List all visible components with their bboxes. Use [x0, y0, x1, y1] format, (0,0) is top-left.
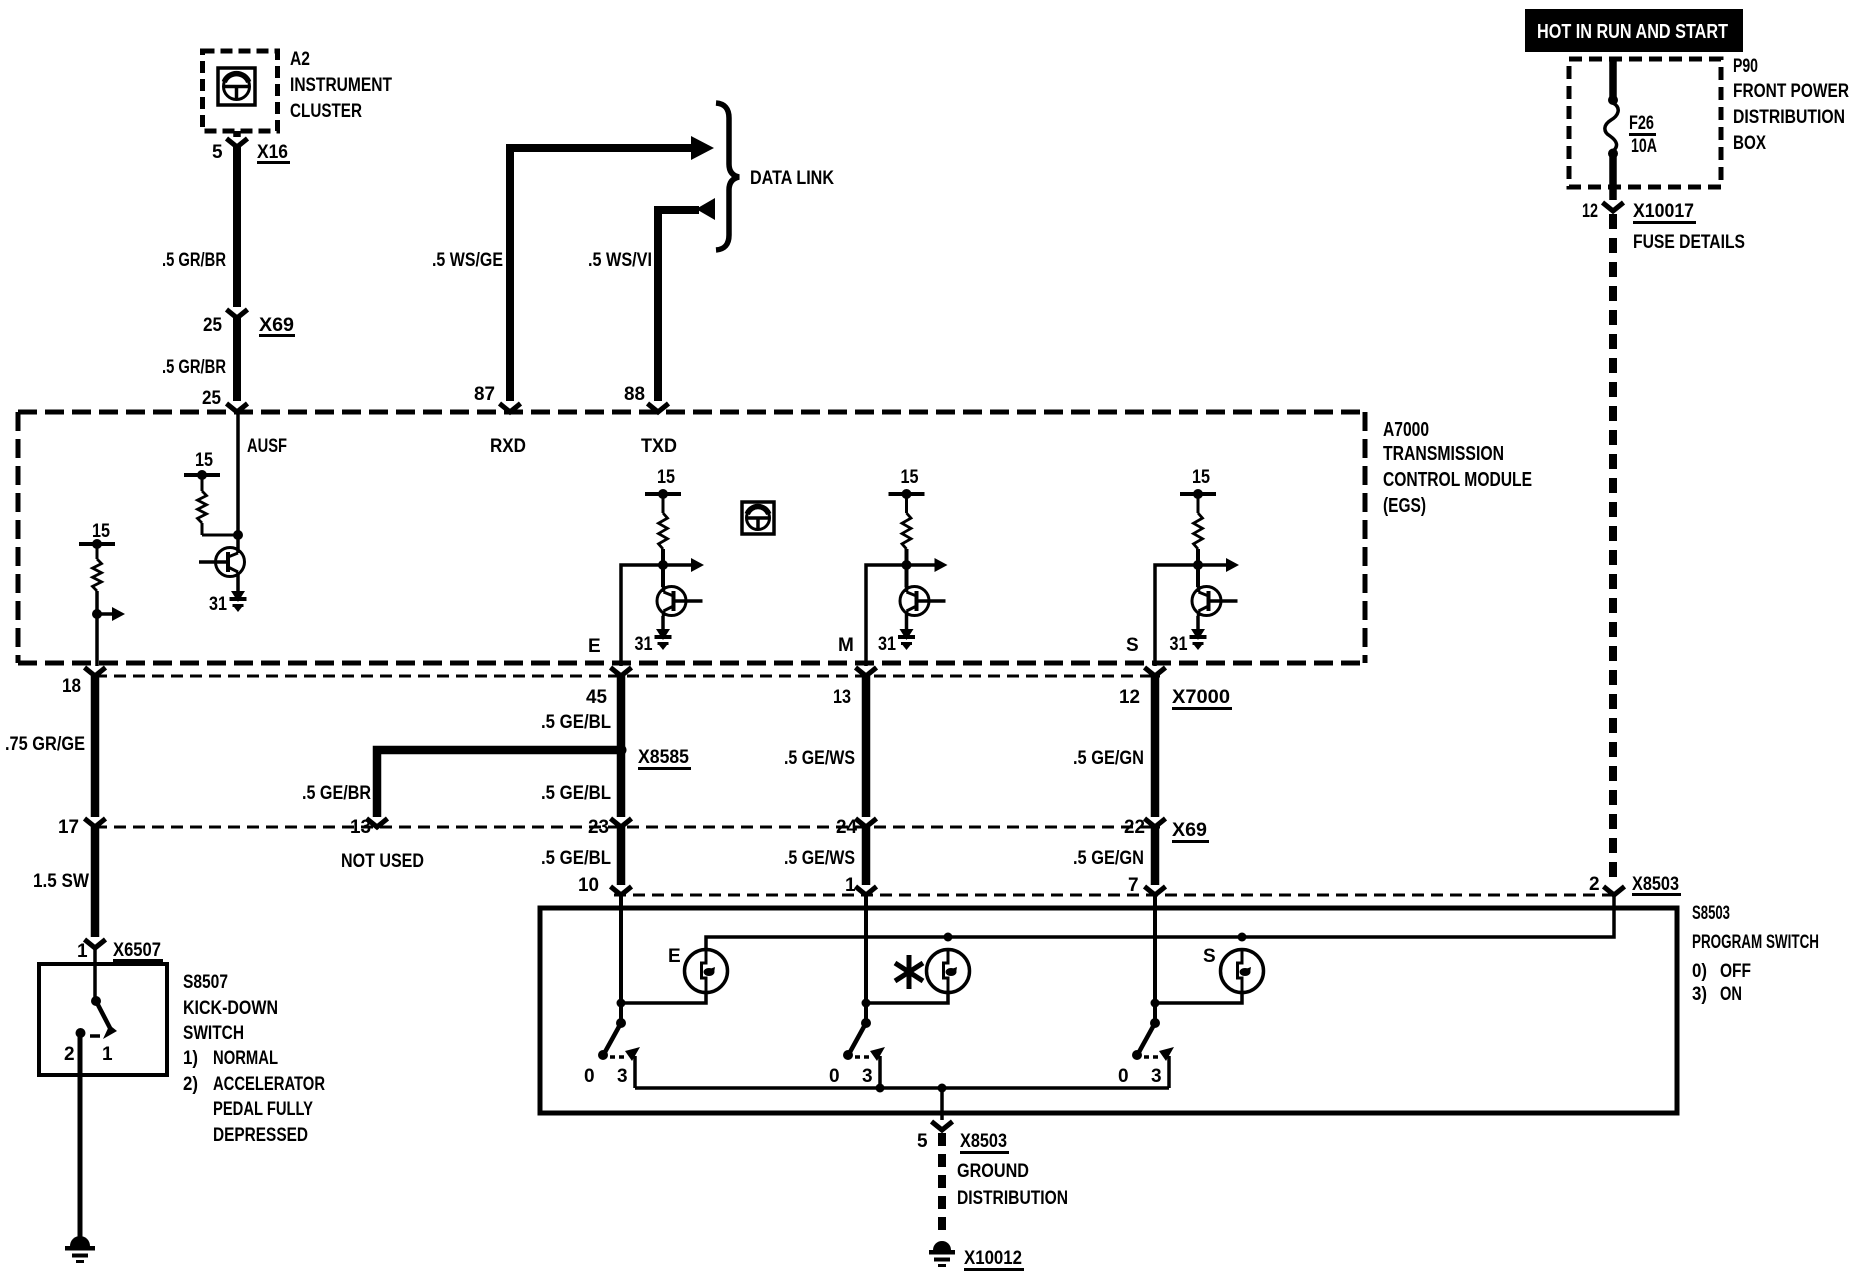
- wire M lower .5 GE/WS: [862, 827, 871, 885]
- wire TXD: [658, 210, 699, 401]
- connector X8503 pin5: [932, 1122, 953, 1131]
- node S lamp junction: [1151, 999, 1160, 1008]
- svg-text:X6507: X6507: [113, 940, 161, 961]
- svg-text:1: 1: [77, 941, 88, 962]
- svg-text:12: 12: [1119, 687, 1140, 708]
- ground 31 M: [900, 629, 914, 640]
- svg-text:X16: X16: [257, 142, 288, 163]
- svg-text:0: 0: [584, 1066, 595, 1087]
- wire S emitter: [1196, 616, 1200, 630]
- svg-text:F26: F26: [1629, 113, 1654, 134]
- svg-text:X10017: X10017: [1633, 201, 1694, 222]
- svg-text:CONTROL MODULE: CONTROL MODULE: [1383, 469, 1532, 491]
- switch S8503 E: [616, 1018, 626, 1028]
- left driver power rail 15: [79, 542, 115, 546]
- svg-text:0: 0: [1118, 1066, 1129, 1087]
- left driver arrow: [97, 612, 116, 616]
- svg-text:2: 2: [1589, 874, 1600, 895]
- svg-text:5: 5: [212, 142, 223, 163]
- svg-text:.5 GR/BR: .5 GR/BR: [162, 357, 226, 378]
- svg-text:BOX: BOX: [1733, 133, 1766, 154]
- connector X16: [227, 139, 248, 148]
- transistor AUSF: [216, 548, 245, 577]
- AUSF power rail 15: [184, 473, 220, 477]
- lamp M: [927, 950, 970, 993]
- svg-text:RXD: RXD: [490, 436, 526, 457]
- svg-text:7: 7: [1128, 875, 1139, 896]
- S driver arrow: [1198, 563, 1230, 567]
- node fuse top: [1608, 95, 1618, 105]
- svg-text:S8503: S8503: [1692, 903, 1730, 924]
- svg-text:.75 GR/GE: .75 GR/GE: [5, 734, 85, 755]
- hot in run banner: [1525, 9, 1743, 52]
- wire S lower .5 GE/GN: [1151, 827, 1160, 885]
- wire M emitter: [905, 616, 909, 630]
- svg-text:2): 2): [183, 1074, 198, 1095]
- connector X7000 pin at 621: [611, 668, 632, 677]
- connector X6507: [85, 940, 106, 949]
- wire M main vertical: [864, 895, 868, 1020]
- connector X8503 pin at 1155: [1145, 887, 1166, 896]
- svg-text:.5 GE/WS: .5 GE/WS: [784, 748, 855, 769]
- transistor M: [900, 587, 929, 616]
- node bus 3 M: [876, 1084, 885, 1093]
- E driver arrow: [663, 563, 695, 567]
- svg-text:15: 15: [657, 467, 675, 488]
- svg-text:.5 GE/BL: .5 GE/BL: [541, 712, 611, 733]
- svg-text:DEPRESSED: DEPRESSED: [213, 1125, 308, 1146]
- svg-text:FUSE DETAILS: FUSE DETAILS: [1633, 232, 1745, 253]
- arrow TXD from data link: [696, 198, 715, 220]
- svg-text:31: 31: [635, 634, 653, 655]
- svg-text:ON: ON: [1720, 984, 1742, 1005]
- svg-text:A7000: A7000: [1383, 419, 1429, 441]
- connector pin25 at TCM: [227, 404, 248, 413]
- wire 3-position bus: [635, 1086, 1169, 1090]
- M driver arrow: [907, 563, 939, 567]
- wire lamp E bottom: [621, 993, 706, 1004]
- program switch S8503 box: [540, 908, 1677, 1113]
- wire lamp S bottom: [1155, 993, 1242, 1004]
- svg-text:15: 15: [195, 450, 213, 471]
- connector X69 pin at 95: [85, 819, 106, 828]
- svg-text:SWITCH: SWITCH: [183, 1023, 244, 1044]
- svg-text:.5 GE/WS: .5 GE/WS: [784, 848, 855, 869]
- connector X8503 pin at 866: [856, 887, 877, 896]
- svg-text:1.5 SW: 1.5 SW: [33, 871, 89, 892]
- TCM icon: [742, 502, 774, 534]
- data link bracket: [716, 103, 739, 250]
- svg-text:S8507: S8507: [183, 972, 228, 993]
- node AUSF junction: [233, 530, 243, 540]
- connector X7000 pin at 1155: [1145, 668, 1166, 677]
- fuse F26: [1605, 103, 1618, 151]
- connector line X8503: [614, 894, 1620, 897]
- arrow RXD to data link: [691, 136, 714, 160]
- svg-text:X8585: X8585: [638, 747, 689, 768]
- connector X8503 pin at 1614: [1604, 887, 1625, 896]
- svg-text:DATA LINK: DATA LINK: [750, 168, 834, 189]
- transistor S: [1192, 587, 1221, 616]
- switch S8507: [91, 996, 101, 1006]
- svg-text:E: E: [588, 636, 601, 657]
- svg-text:45: 45: [586, 687, 607, 708]
- svg-text:0): 0): [1692, 961, 1707, 982]
- kick-down switch S8507 box: [39, 964, 167, 1075]
- svg-text:10A: 10A: [1631, 136, 1657, 157]
- svg-text:24: 24: [836, 817, 857, 838]
- wire E main vertical: [619, 895, 623, 1020]
- svg-text:13: 13: [350, 817, 371, 838]
- wire S branch: [1155, 565, 1198, 666]
- ground 31 S: [1191, 629, 1205, 640]
- connector X69 inline: [227, 310, 248, 319]
- svg-text:PEDAL FULLY: PEDAL FULLY: [213, 1099, 313, 1120]
- wire kick-down to ground: [78, 1037, 83, 1238]
- wire fuse bottom: [1609, 156, 1617, 200]
- svg-text:1: 1: [102, 1044, 113, 1065]
- node bus S: [1238, 933, 1247, 942]
- svg-text:A2: A2: [290, 49, 310, 70]
- wire X8585 branch: [377, 750, 618, 817]
- svg-text:.5 GE/BR: .5 GE/BR: [302, 783, 371, 804]
- svg-text:31: 31: [878, 634, 896, 655]
- svg-text:15: 15: [92, 521, 110, 542]
- node E junction: [658, 560, 668, 570]
- svg-text:.5 GE/BL: .5 GE/BL: [541, 848, 611, 869]
- connector pin87: [500, 404, 521, 413]
- ground 31 AUSF: [231, 591, 245, 602]
- wire ground drop: [940, 1088, 944, 1120]
- wire into kick-down: [93, 948, 97, 1001]
- svg-text:87: 87: [474, 384, 495, 405]
- svg-text:X69: X69: [259, 315, 294, 336]
- svg-text:22: 22: [1124, 817, 1145, 838]
- AUSF wire to junction: [202, 534, 238, 537]
- switch S8503 M: [861, 1018, 871, 1028]
- svg-text:13: 13: [833, 687, 851, 708]
- lamp S: [1221, 950, 1264, 993]
- svg-text:3: 3: [1151, 1066, 1162, 1087]
- svg-text:S: S: [1203, 946, 1216, 967]
- wire pin2 into box: [706, 895, 1614, 949]
- svg-text:23: 23: [588, 817, 609, 838]
- M driver power rail 15: [889, 492, 925, 496]
- svg-text:M: M: [838, 635, 854, 656]
- svg-text:NORMAL: NORMAL: [213, 1048, 278, 1069]
- svg-text:.5 GE/GN: .5 GE/GN: [1073, 848, 1144, 869]
- transistor E: [657, 587, 686, 616]
- wire .5 GR/BR upper: [233, 146, 241, 307]
- svg-text:10: 10: [578, 875, 599, 896]
- node M lamp junction: [862, 999, 871, 1008]
- wire E emitter: [661, 616, 665, 630]
- wire ground distribution dashed: [938, 1133, 946, 1232]
- svg-text:.5 WS/GE: .5 WS/GE: [432, 250, 503, 271]
- wire 1.5 SW: [91, 827, 100, 937]
- TCM A7000 dashed box: [18, 410, 1365, 415]
- svg-text:FRONT POWER: FRONT POWER: [1733, 81, 1849, 102]
- instrument cluster A2 dashed box: [203, 51, 278, 131]
- node left junction: [92, 609, 102, 619]
- connector X10017: [1603, 203, 1624, 212]
- wire pin5 stub: [233, 131, 241, 137]
- S driver power rail 15: [1180, 492, 1216, 496]
- svg-text:18: 18: [62, 676, 81, 697]
- svg-text:.5 GR/BR: .5 GR/BR: [162, 250, 226, 271]
- connector X69 pin at 866: [856, 819, 877, 828]
- svg-text:3): 3): [1692, 984, 1707, 1005]
- connector X69 pin at 1155: [1145, 819, 1166, 828]
- wire E lower .5 GE/BL: [617, 827, 626, 885]
- connector X7000 pin at 866: [856, 668, 877, 677]
- svg-text:PROGRAM SWITCH: PROGRAM SWITCH: [1692, 932, 1819, 953]
- wire S .5 GE/GN: [1151, 676, 1160, 817]
- svg-text:1: 1: [845, 875, 856, 896]
- svg-text:.5 WS/VI: .5 WS/VI: [588, 250, 652, 271]
- svg-text:CLUSTER: CLUSTER: [290, 101, 362, 122]
- svg-text:DISTRIBUTION: DISTRIBUTION: [957, 1188, 1068, 1209]
- svg-text:.5 GE/GN: .5 GE/GN: [1073, 748, 1144, 769]
- wire RXD: [510, 148, 692, 401]
- E driver resistor: [662, 496, 665, 513]
- wire hot dashed: [1609, 214, 1617, 884]
- node bus 3 drop: [938, 1084, 947, 1093]
- connector line X7000: [95, 675, 1160, 678]
- svg-text:3: 3: [862, 1066, 873, 1087]
- connector X69 pin at 621: [611, 819, 632, 828]
- svg-text:KICK-DOWN: KICK-DOWN: [183, 998, 278, 1019]
- wire fuse top: [1609, 61, 1617, 98]
- svg-text:25: 25: [202, 388, 221, 409]
- svg-text:HOT IN RUN AND START: HOT IN RUN AND START: [1537, 21, 1728, 43]
- S driver resistor: [1197, 496, 1200, 513]
- ground X10012: [933, 1241, 951, 1250]
- svg-text:3: 3: [617, 1066, 628, 1087]
- wire .75 GR/GE: [91, 676, 100, 817]
- wire M branch: [866, 565, 907, 666]
- ground 31 E: [656, 629, 670, 640]
- svg-text:X10012: X10012: [964, 1248, 1022, 1269]
- wire AUSF emitter: [236, 577, 240, 592]
- node S junction: [1193, 560, 1203, 570]
- svg-text:15: 15: [901, 467, 919, 488]
- wire .5 GR/BR lower: [233, 317, 241, 401]
- svg-text:S: S: [1126, 635, 1139, 656]
- connector X7000 pin at 95: [85, 668, 106, 677]
- wire E branch: [621, 565, 663, 666]
- ground kick-down: [70, 1236, 90, 1246]
- node M junction: [902, 560, 912, 570]
- wire E .5 GE/BL: [617, 676, 626, 817]
- svg-text:31: 31: [209, 594, 227, 615]
- svg-text:TXD: TXD: [641, 436, 677, 457]
- svg-text:AUSF: AUSF: [247, 436, 287, 457]
- connector X69 pin at 377: [367, 819, 388, 828]
- svg-text:OFF: OFF: [1720, 961, 1751, 982]
- svg-text:X8503: X8503: [960, 1131, 1007, 1152]
- left driver resistor: [96, 546, 99, 559]
- svg-text:X8503: X8503: [1632, 874, 1679, 895]
- wire M .5 GE/WS: [862, 676, 871, 817]
- connector line X69: [95, 826, 1160, 829]
- svg-text:ACCELERATOR: ACCELERATOR: [213, 1074, 325, 1095]
- connector pin88: [648, 404, 669, 413]
- svg-text:P90: P90: [1733, 56, 1758, 77]
- switch S8503 S: [1150, 1018, 1160, 1028]
- connector X8503 pin at 621: [611, 887, 632, 896]
- svg-text:TRANSMISSION: TRANSMISSION: [1383, 443, 1504, 465]
- svg-text:1): 1): [183, 1048, 198, 1069]
- svg-text:NOT USED: NOT USED: [341, 851, 424, 872]
- node X8585: [616, 745, 627, 756]
- svg-text:(EGS): (EGS): [1383, 495, 1426, 517]
- svg-text:X7000: X7000: [1172, 687, 1230, 708]
- AUSF pull-up resistor: [201, 477, 204, 491]
- node bus M: [944, 933, 953, 942]
- svg-text:15: 15: [1192, 467, 1210, 488]
- E driver power rail 15: [645, 492, 681, 496]
- svg-text:INSTRUMENT: INSTRUMENT: [290, 75, 392, 96]
- wire lamp M bottom: [866, 993, 948, 1004]
- svg-text:DISTRIBUTION: DISTRIBUTION: [1733, 107, 1845, 128]
- svg-text:2: 2: [64, 1044, 75, 1065]
- svg-text:.5 GE/BL: .5 GE/BL: [541, 783, 611, 804]
- lamp E: [685, 950, 728, 993]
- label lamp asterisk: [907, 955, 912, 989]
- svg-text:17: 17: [58, 817, 79, 838]
- svg-text:88: 88: [624, 384, 645, 405]
- svg-text:GROUND: GROUND: [957, 1161, 1029, 1182]
- svg-text:25: 25: [203, 315, 222, 336]
- svg-text:0: 0: [829, 1066, 840, 1087]
- svg-text:X69: X69: [1172, 820, 1207, 841]
- M driver resistor: [905, 496, 908, 513]
- instrument cluster icon: [218, 68, 255, 105]
- node fuse bottom: [1608, 149, 1618, 159]
- svg-text:31: 31: [1170, 634, 1188, 655]
- wire S main vertical: [1153, 895, 1157, 1020]
- node E lamp junction: [617, 999, 626, 1008]
- svg-text:E: E: [668, 946, 681, 967]
- wire AUSF vertical: [236, 412, 240, 547]
- P90 dashed box: [1569, 59, 1721, 187]
- svg-text:12: 12: [1582, 201, 1598, 222]
- svg-text:5: 5: [917, 1131, 928, 1152]
